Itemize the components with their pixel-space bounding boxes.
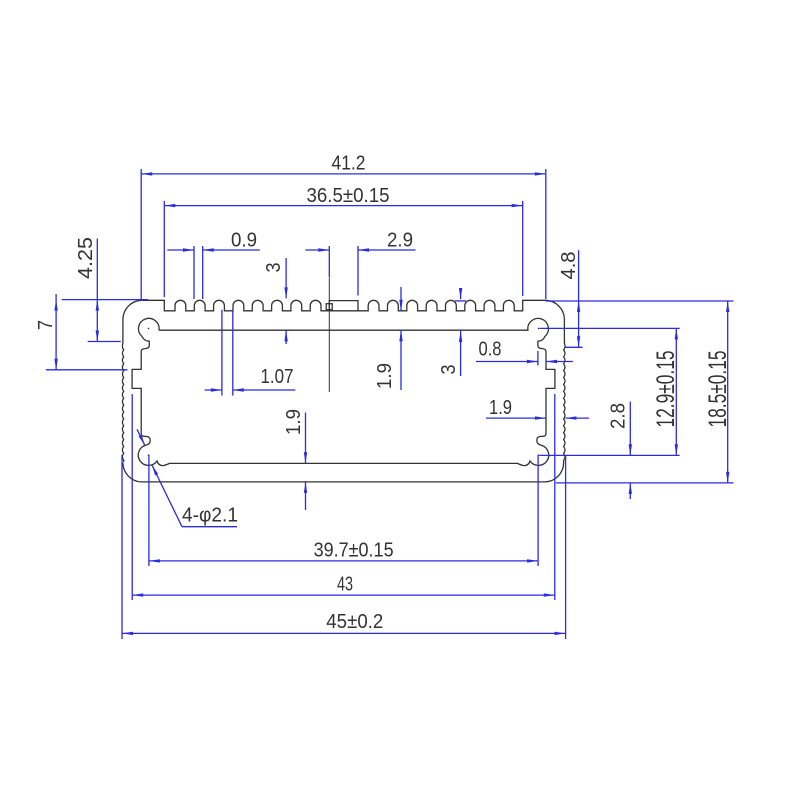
dimension 1.9 right wall	[486, 397, 589, 420]
svg-text:3: 3	[438, 365, 460, 375]
svg-text:36.5±0.15: 36.5±0.15	[307, 185, 390, 207]
svg-text:45±0.2: 45±0.2	[326, 611, 383, 633]
svg-text:1.9: 1.9	[489, 397, 512, 419]
dimension 12.9±0.15 boss spacing	[540, 328, 681, 455]
svg-text:0.9: 0.9	[231, 230, 257, 252]
dimension 4.8 right notch depth	[558, 250, 583, 347]
svg-text:12.9±0.15: 12.9±0.15	[652, 351, 680, 428]
svg-text:2.8: 2.8	[608, 403, 630, 429]
dimension 3 top wall thickness right	[438, 288, 466, 376]
svg-text:43: 43	[337, 574, 353, 596]
svg-text:4-φ2.1: 4-φ2.1	[182, 505, 238, 527]
dimension 7 left slot depth	[35, 294, 128, 370]
svg-text:1.9: 1.9	[283, 409, 305, 435]
svg-text:18.5±0.15: 18.5±0.15	[704, 351, 732, 428]
enclosure outer profile right+bottom	[123, 300, 565, 482]
datum square marker	[326, 304, 332, 310]
svg-text:7: 7	[35, 320, 57, 330]
dimension 0.9 rib width	[167, 230, 259, 300]
svg-text:2.9: 2.9	[387, 230, 413, 252]
dimension 36.5±0.15 rib band width	[164, 185, 522, 297]
svg-text:4.25: 4.25	[75, 237, 97, 279]
enclosure inner cavity profile with 4 screw bosses	[132, 318, 555, 465]
dimension 18.5±0.15 overall height	[546, 301, 734, 483]
dimension 1.9 groove base to ceiling	[374, 287, 403, 390]
boss center mark BR	[538, 454, 540, 456]
dimension 39.7±0.15 inner width	[149, 455, 538, 566]
dimension 1.9 bottom wall	[283, 409, 307, 510]
dimension 43 slot width	[132, 394, 555, 600]
dimension 0.8 wall step	[476, 339, 573, 366]
boss center mark TL	[148, 328, 150, 330]
raised tab 2.9	[329, 301, 358, 311]
dimension 2.9 tab width	[305, 230, 415, 296]
dimension 3 top wall thickness left	[263, 258, 288, 344]
dimension 2.8 boss to bottom	[608, 402, 633, 500]
svg-text:1.9: 1.9	[374, 363, 396, 389]
svg-text:3: 3	[263, 263, 285, 273]
label 4-phi2.1 screw holes with leader	[137, 429, 238, 526]
centerline datum	[328, 278, 330, 392]
enclosure outer profile left side	[122, 300, 141, 462]
boss center mark TR	[538, 328, 540, 330]
dimension 45±0.2 overall width	[122, 455, 566, 639]
svg-text:0.8: 0.8	[479, 339, 502, 361]
boss center mark BL	[148, 454, 150, 456]
dimension 4.25 left notch depth	[62, 237, 149, 342]
dimension 1.07 groove width	[205, 310, 296, 396]
svg-text:4.8: 4.8	[558, 252, 580, 280]
svg-text:1.07: 1.07	[261, 366, 294, 388]
dimension 41.2 top width	[141, 153, 546, 300]
svg-text:41.2: 41.2	[332, 153, 366, 175]
svg-text:39.7±0.15: 39.7±0.15	[314, 539, 394, 561]
